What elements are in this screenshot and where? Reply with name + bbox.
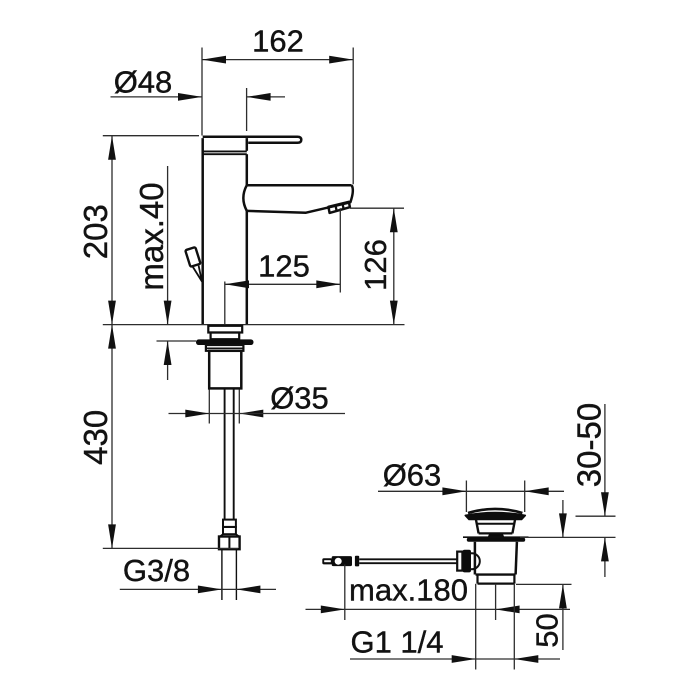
arrow Ø48 left (tip at x=202) bbox=[178, 93, 202, 101]
escutcheon lower band bbox=[211, 333, 240, 340]
arrow Ø63 left bbox=[442, 487, 466, 495]
fitting flare bbox=[220, 534, 239, 536]
dim line 50 lower stem bbox=[562, 584, 564, 650]
rod clevis block (black) bbox=[332, 556, 352, 566]
spout root bulge bbox=[243, 185, 246, 211]
dim line G1 1/4 left bbox=[350, 658, 476, 660]
outlet right edge bbox=[513, 575, 515, 584]
dim line G3/8 right tail bbox=[222, 588, 276, 590]
G3/8 nut bbox=[219, 537, 240, 550]
ext line 162/Ø48 left x=202 bbox=[201, 48, 203, 136]
svg-text:30-50: 30-50 bbox=[571, 403, 608, 487]
rod adjuster nub (black) bbox=[355, 556, 359, 567]
aerator ring bbox=[328, 202, 350, 213]
svg-text:max.180: max.180 bbox=[349, 573, 468, 608]
spout tip edge bbox=[349, 185, 353, 203]
svg-text:Ø48: Ø48 bbox=[114, 65, 173, 100]
hose end fitting lower bbox=[223, 527, 236, 534]
svg-text:Ø35: Ø35 bbox=[270, 381, 329, 416]
plug cup sides bbox=[476, 519, 515, 533]
svg-text:203: 203 bbox=[77, 204, 114, 259]
arrow 430 bottom bbox=[108, 524, 116, 548]
horizontal rod bottom line bbox=[359, 562, 457, 564]
dim line Ø48 left part bbox=[111, 96, 203, 98]
svg-text:126: 126 bbox=[358, 239, 393, 291]
threaded shank bbox=[209, 351, 241, 389]
dim line 430 bbox=[111, 325, 113, 549]
thread tail left bbox=[221, 549, 223, 600]
spout underside bbox=[247, 203, 349, 213]
dim line Ø48 right tail bbox=[247, 96, 285, 98]
outlet bottom line bbox=[478, 582, 515, 584]
arrow 30-50 bottom (up) bbox=[601, 537, 609, 561]
arrow 162 right bbox=[329, 56, 353, 64]
ball joint housing bbox=[464, 553, 480, 569]
dim line Ø35 left tail bbox=[169, 413, 210, 415]
hose right line bbox=[233, 388, 235, 519]
outlet left edge bbox=[476, 575, 478, 584]
arrow 203 top bbox=[108, 136, 116, 160]
plug cap dome bbox=[468, 509, 522, 513]
arrow 125 left bbox=[225, 280, 249, 288]
ext line 30-50 upper (cap rim) bbox=[576, 515, 616, 517]
body right edge upper bbox=[246, 138, 249, 151]
arrow 50 bottom (up) bbox=[559, 584, 567, 608]
nut centre divider bbox=[228, 537, 230, 550]
arrow 30-50 top (down) bbox=[601, 492, 609, 516]
arrow G1 1/4 right bbox=[514, 655, 538, 663]
dim line G3/8 left bbox=[120, 588, 222, 590]
hose end fitting upper bbox=[223, 520, 236, 527]
dim line Ø35 centre bbox=[209, 413, 239, 415]
arrow max.40 bottom (up) bbox=[164, 341, 172, 365]
lever handle bbox=[203, 137, 302, 143]
dim line 30-50 upper bbox=[604, 404, 606, 516]
spout top line bbox=[247, 184, 352, 187]
pop-up rod centre line in body bbox=[224, 282, 226, 325]
dim line 126 bbox=[393, 208, 395, 324]
arrow max.40 top (down) bbox=[164, 301, 172, 325]
dim line Ø35 right tail bbox=[239, 413, 345, 415]
seat flange (black) bbox=[467, 538, 525, 542]
ext line flange level (shared 30-50 / 50) bbox=[520, 536, 616, 538]
dim line max.40 upper stem bbox=[167, 166, 169, 325]
dim line 125 bbox=[225, 283, 340, 285]
horizontal rod top line bbox=[359, 558, 457, 560]
hose left line bbox=[224, 388, 226, 519]
drain body bottom line bbox=[476, 573, 516, 575]
ext line Ø48 right x=246.6 bbox=[246, 88, 248, 131]
ext line max.40 washer top bbox=[157, 340, 197, 342]
arrow 203 bottom bbox=[108, 301, 116, 325]
ext line 125 right x=340 bbox=[339, 208, 341, 292]
ext line G1 1/4 right bbox=[513, 584, 515, 670]
arrow G1 1/4 left bbox=[452, 655, 476, 663]
knob stem bbox=[193, 266, 202, 282]
ext line 203 top y=135.7 bbox=[103, 135, 199, 137]
ext line 162 right x=353 bbox=[352, 48, 354, 185]
dim line Ø63 bbox=[378, 490, 564, 492]
cartridge ring line 1 bbox=[203, 150, 247, 152]
svg-text:G1 1/4: G1 1/4 bbox=[350, 625, 443, 660]
svg-text:50: 50 bbox=[530, 613, 565, 647]
arrow 162 left bbox=[202, 56, 226, 64]
flange inner line bbox=[206, 347, 244, 349]
svg-text:162: 162 bbox=[252, 24, 304, 59]
drain body left edge bbox=[474, 542, 477, 575]
arrow 50 top (down) bbox=[559, 513, 567, 537]
dim line 50 upper stem bbox=[562, 500, 564, 537]
arrow 126 bottom bbox=[390, 301, 398, 325]
housing block (black) bbox=[463, 550, 471, 573]
body left edge bbox=[201, 138, 204, 325]
arrow 126 top bbox=[390, 208, 398, 232]
dim line max.40 lower stem bbox=[167, 341, 169, 380]
ext line 50 (drain bottom) bbox=[516, 583, 572, 585]
dim line 203 bbox=[111, 136, 113, 325]
flange under washer bbox=[206, 345, 244, 351]
aerator divider 1 bbox=[336, 205, 337, 211]
arrow Ø35 right bbox=[239, 410, 263, 418]
ext line max.180 right (drain centre) bbox=[495, 584, 497, 620]
aerator divider 2 bbox=[343, 203, 344, 209]
arrow Ø48 right (tip at x=246.6) bbox=[247, 93, 271, 101]
seat flange top line bbox=[463, 536, 529, 538]
drain body right edge bbox=[516, 542, 517, 575]
svg-text:430: 430 bbox=[77, 410, 114, 465]
arrow G3/8 right bbox=[236, 586, 260, 594]
ext line G1 1/4 left bbox=[475, 584, 477, 670]
arrow 430 top bbox=[108, 325, 116, 349]
svg-text:max.40: max.40 bbox=[133, 182, 170, 290]
rubber washer (black) bbox=[196, 339, 254, 345]
body right edge lower bbox=[246, 211, 249, 325]
arrow max.180 left bbox=[321, 606, 345, 614]
rod end tip (black) bbox=[322, 558, 332, 564]
body right edge mid bbox=[246, 154, 249, 185]
cartridge ring line 2 bbox=[203, 153, 247, 155]
svg-text:Ø63: Ø63 bbox=[383, 458, 442, 493]
pop-up rod knob bbox=[185, 247, 200, 267]
plug cap rim (black) bbox=[465, 513, 525, 520]
ext line 430 bottom y=548.4 bbox=[103, 547, 238, 549]
thread tail right bbox=[235, 549, 237, 600]
arrow 125 right bbox=[316, 280, 340, 288]
countertop line bbox=[103, 324, 405, 326]
ext line Ø63 left bbox=[465, 481, 467, 513]
dim line 30-50 lower bbox=[604, 537, 606, 577]
arrow max.180 right bbox=[496, 606, 520, 614]
arrow Ø35 left bbox=[185, 410, 209, 418]
escutcheon upper band bbox=[208, 326, 242, 333]
svg-text:125: 125 bbox=[258, 249, 310, 284]
ext line Ø35 right bbox=[238, 390, 240, 424]
ext line 126 top (aerator level) bbox=[350, 207, 404, 209]
plug stem bump (black) bbox=[488, 534, 505, 538]
plug cup bottom bbox=[479, 532, 513, 534]
arrow G3/8 left bbox=[198, 586, 222, 594]
dim line G1 1/4 right bbox=[476, 658, 560, 660]
dim line max.180 bbox=[306, 608, 571, 610]
ext line Ø35 left bbox=[208, 390, 210, 424]
dim line 162 bbox=[202, 59, 353, 61]
housing washer plate bbox=[457, 552, 462, 571]
ext line max.180 left (rod end) bbox=[344, 565, 346, 621]
plug cup ring line bbox=[477, 523, 515, 525]
arrow Ø63 right bbox=[525, 487, 549, 495]
svg-text:G3/8: G3/8 bbox=[123, 553, 190, 588]
ext line Ø63 right bbox=[524, 481, 526, 513]
